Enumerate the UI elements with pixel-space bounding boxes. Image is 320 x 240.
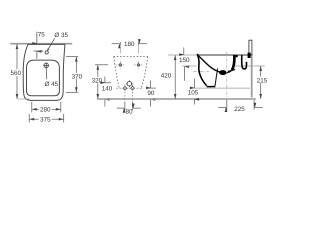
svg-text:Ø 35: Ø 35 bbox=[54, 32, 68, 39]
dimension 420 (floor to top) bbox=[174, 55, 176, 99]
supply pipe J hook (black) bbox=[242, 55, 247, 69]
svg-text:375: 375 bbox=[40, 117, 51, 124]
svg-text:370: 370 bbox=[72, 73, 83, 80]
bidet outer body outline (plan) bbox=[23, 44, 65, 100]
wall line bbox=[251, 54, 253, 98]
pedestal bottom (black) bbox=[207, 86, 216, 88]
svg-text:180: 180 bbox=[124, 41, 135, 48]
svg-text:560: 560 bbox=[10, 70, 21, 77]
bracket level line bbox=[193, 87, 250, 89]
dimension 375 (bottom outer) bbox=[28, 114, 30, 123]
lower fixing bolts crosshair bbox=[116, 87, 143, 89]
bidet inner rim (plan) bbox=[27, 60, 60, 96]
pedestal right edge bbox=[215, 69, 218, 87]
dimension 150 (top to supply level) bbox=[183, 48, 185, 55]
leader to drain label bbox=[45, 68, 48, 79]
dimension 225 (below floor) bbox=[226, 100, 228, 110]
front outer edge (black) bbox=[197, 54, 206, 86]
svg-text:420: 420 bbox=[161, 72, 172, 79]
svg-text:90: 90 bbox=[147, 90, 155, 97]
wall line top left bbox=[10, 43, 72, 45]
leader line to tap hole label bbox=[47, 38, 55, 51]
supply level line (right of bowl to past wall) bbox=[234, 65, 265, 67]
hidden body right side (dashed) bbox=[141, 57, 148, 89]
right bolt diamond bbox=[131, 86, 135, 90]
extension lines from 180 ticks down bbox=[119, 46, 121, 54]
dimension 320 (left) bbox=[95, 64, 108, 66]
svg-text:140: 140 bbox=[102, 86, 113, 93]
dimension 90 (right of drain) bbox=[147, 87, 156, 89]
tap hole circle bbox=[45, 51, 48, 54]
left bolt diamond bbox=[123, 86, 127, 90]
svg-text:225: 225 bbox=[234, 106, 245, 113]
drain centre line (vertical dash-dot) bbox=[226, 52, 228, 110]
dimension 105 bbox=[194, 79, 196, 88]
left fixing hole bbox=[116, 61, 125, 68]
svg-text:75: 75 bbox=[38, 32, 46, 39]
svg-text:280: 280 bbox=[40, 107, 51, 114]
leader arrowhead at tap hole bbox=[47, 48, 49, 51]
dimension 215 (right of wall) bbox=[260, 66, 262, 99]
svg-text:105: 105 bbox=[188, 90, 199, 97]
hidden body outline top (dashed) bbox=[114, 56, 148, 58]
rear rim cap (black) bbox=[233, 55, 238, 57]
dimension 560 (left) bbox=[16, 44, 18, 99]
dimension 370 (right of plan) bbox=[66, 56, 78, 58]
drain boss (black) bbox=[219, 70, 226, 75]
bowl interior curve (black) bbox=[198, 56, 231, 73]
wall anchor black mark bbox=[248, 53, 251, 58]
svg-text:150: 150 bbox=[179, 57, 190, 64]
extension dashes below floor for 80 bbox=[124, 85, 126, 102]
top reference line (rim level extension) bbox=[168, 54, 198, 56]
svg-text:Ø 45: Ø 45 bbox=[44, 81, 58, 88]
supply pipe above rim bbox=[249, 40, 252, 54]
dimension 180 (fixing holes spacing) bbox=[112, 43, 120, 45]
dimension 80 (bolt spacing, below floor) bbox=[124, 102, 126, 111]
supply level line (left of bowl) bbox=[182, 65, 197, 67]
svg-text:320: 320 bbox=[92, 77, 103, 84]
rear basin wall (black thick) bbox=[232, 56, 235, 70]
drain boss centre line (horizontal dash-dot) bbox=[194, 70, 210, 72]
svg-text:80: 80 bbox=[125, 108, 133, 115]
dimension 280 (bottom inner) bbox=[31, 102, 33, 113]
drain circle (rear view) bbox=[126, 80, 133, 87]
right fixing hole bbox=[134, 61, 143, 68]
dimension 140 (left) bbox=[102, 82, 112, 84]
svg-text:215: 215 bbox=[257, 77, 268, 84]
hidden body left side (dashed) bbox=[114, 57, 120, 89]
floor line bbox=[97, 98, 256, 100]
rear underside line bbox=[228, 69, 235, 71]
drain target symbol (plan) bbox=[43, 62, 49, 68]
side view rim top line bbox=[197, 54, 252, 56]
